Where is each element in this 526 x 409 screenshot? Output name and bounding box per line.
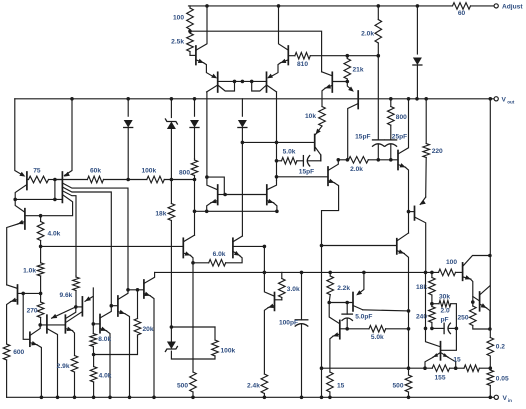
- transistor Q24 (NPN): [328, 160, 338, 186]
- transistor Q32 (NPN): [322, 233, 409, 254]
- wire Q17 emitter to 2.9k: [72, 331, 74, 356]
- wire 30k column to Q28 collector: [441, 328, 456, 350]
- wire Z1 top: [170, 99, 172, 118]
- wire 4.0k lower to rail: [93, 382, 95, 397]
- junction Vout rail / D2: [126, 97, 130, 101]
- resistor 21k value label: [353, 67, 364, 74]
- resistor 4.0k upper value label: [48, 231, 61, 238]
- resistor 2.5k: [187, 33, 194, 55]
- junction 9.6k / Q16 / Q17 / Q18 node: [74, 305, 78, 309]
- terminal Vin label: [503, 395, 513, 403]
- resistor 250: [470, 302, 477, 325]
- wire emitter bus y211: [195, 210, 277, 212]
- wire 60k to 100k: [104, 179, 147, 181]
- resistor 800 (upper): [388, 99, 395, 125]
- svg-text:100k: 100k: [221, 348, 236, 355]
- wire 20k top: [137, 290, 139, 319]
- transistor Q28 (NPN dual emitter): [425, 328, 456, 368]
- svg-text:5.0k: 5.0k: [371, 334, 384, 341]
- resistor 600: [3, 344, 10, 360]
- transistor Q10 (NPN): [398, 99, 409, 170]
- resistor 240 value label: [416, 313, 427, 320]
- transistor Q20 (NPN): [7, 285, 41, 304]
- wire 5.0k lower left lead: [347, 328, 369, 330]
- junction bottom rail / Q19 emitter: [108, 396, 112, 400]
- wire 21k-top to 2.0k-bottom: [347, 55, 378, 57]
- svg-text:pF: pF: [441, 317, 449, 324]
- junction 2.2k bottom / Q26 collector: [327, 301, 331, 305]
- wire Q4 emitter to Q3: [270, 63, 280, 77]
- wire Q3 collector column: [276, 92, 278, 181]
- junction bottom rail / 500 right: [407, 396, 411, 400]
- junction top rail / Q4 collector: [277, 4, 281, 8]
- resistor 2.9k: [71, 356, 78, 373]
- resistor 1.0k value label: [23, 268, 36, 275]
- junction bus2 / 18k right: [430, 271, 434, 275]
- wire 30k right bend: [451, 304, 457, 329]
- wire 250 to 0.2 node: [473, 326, 490, 330]
- wire D3 top: [194, 99, 196, 116]
- wire Q26 emitter to 15: [330, 336, 333, 372]
- junction Q14 base node: [110, 304, 114, 308]
- resistor 500 right value label: [392, 383, 403, 390]
- junction 155 left / Q28 emitter1: [423, 366, 427, 370]
- wire Q21 base drop: [23, 293, 30, 339]
- capacitor 15pF: [373, 56, 385, 158]
- transistor Q21 (NPN): [30, 325, 40, 346]
- wire 0.05 to rail: [489, 386, 491, 398]
- svg-text:100: 100: [173, 15, 184, 22]
- resistor 2.0k upper value label: [361, 31, 374, 38]
- svg-text:60k: 60k: [90, 168, 101, 175]
- svg-text:3.0k: 3.0k: [287, 286, 300, 293]
- junction top rail / D1: [416, 4, 420, 8]
- transistor Q27 (PNP): [353, 290, 363, 311]
- junction Q9 collector / 2.0k line: [346, 158, 350, 162]
- wire 6.0k to Q23 emitter: [226, 256, 242, 263]
- resistor 60 (to Adjust pin): [453, 3, 471, 10]
- svg-text:V: V: [503, 395, 508, 402]
- wire Q10 emitter down: [405, 167, 408, 233]
- junction Vout rail / right column: [489, 97, 493, 101]
- transistor Q19 (NPN): [93, 306, 111, 333]
- transistor Q26 (NPN): [329, 303, 347, 339]
- wire 18k to zener node: [170, 221, 172, 328]
- wire Q29 emitter to Q30 base: [471, 279, 473, 302]
- transistor Q16 (PNP): [47, 314, 58, 397]
- svg-text:60: 60: [458, 10, 466, 17]
- resistor 15 (right): [464, 365, 479, 372]
- wire 2.9k to rail: [74, 372, 76, 397]
- resistor 5.0k lower value label: [371, 334, 384, 341]
- wire bottom rail (Vin): [7, 396, 494, 398]
- terminal Vout label: [502, 96, 515, 104]
- wire D3 bottom: [194, 128, 196, 159]
- resistor 5.0k (with 15pF): [282, 158, 297, 165]
- junction Vout rail / D3: [193, 97, 197, 101]
- resistor 21k: [344, 56, 351, 82]
- wire Q23-base node down: [263, 246, 265, 272]
- svg-text:500: 500: [392, 383, 403, 390]
- junction bottom rail / Q24 emitter: [320, 396, 324, 400]
- transistor Q1 (NPN): [190, 6, 207, 65]
- junction 4.0k / comparator bus: [39, 245, 43, 249]
- capacitor 25pF: [385, 125, 397, 158]
- junction bottom rail / 2.9k: [73, 396, 77, 400]
- junction emitter bus Q12: [205, 210, 209, 214]
- resistor 100 value label: [173, 15, 184, 22]
- resistor 800 (lower): [191, 159, 198, 180]
- junction bottom rail / Q21 emitter: [40, 396, 44, 400]
- resistor 0.05 value label: [496, 376, 509, 383]
- wire 6.0k left lead: [193, 262, 209, 264]
- svg-text:2.4k: 2.4k: [247, 383, 260, 390]
- transistor Q5 (PNP, quad collector): [43, 172, 128, 306]
- wire Q15 emitter to rail: [150, 296, 154, 398]
- junction Q2 base rail A: [233, 80, 237, 84]
- wire 240 bottom: [431, 323, 433, 329]
- svg-text:5.0pF: 5.0pF: [355, 314, 372, 321]
- junction bus2 / x426 (220): [424, 271, 428, 275]
- resistor 15 right value label: [453, 357, 461, 364]
- svg-text:15pF: 15pF: [299, 169, 314, 176]
- capacitor 15pF series value label: [299, 169, 314, 176]
- svg-text:21k: 21k: [353, 67, 364, 74]
- transistor Q8 (NPN): [322, 72, 348, 92]
- resistor 3.0k value label: [287, 286, 300, 293]
- wire Vout rail: [15, 98, 494, 100]
- wire 600 to ground rail: [6, 360, 8, 397]
- transistor Q29 (NPN): [463, 256, 490, 281]
- transistor Q13 (NPN): [267, 181, 277, 205]
- junction Q32 base / Q24 emitter column: [320, 244, 324, 248]
- svg-text:0.05: 0.05: [496, 376, 509, 383]
- wire 500 left to rail: [192, 392, 194, 397]
- svg-text:6.0k: 6.0k: [213, 251, 226, 258]
- resistor 100k (upper): [147, 176, 165, 183]
- junction bottom rail / Q15 emitter: [152, 396, 156, 400]
- wire D1 cathode to Vout rail: [416, 65, 418, 99]
- junction Q24-emitter column / 155 line: [320, 366, 324, 370]
- junction 270 bottom / Q21 collector: [38, 323, 42, 327]
- wire Q27 emitter drop: [358, 272, 364, 294]
- wire 75 left lead: [27, 179, 29, 181]
- wire D2 top: [127, 99, 129, 116]
- wire Q25 emitter to 2.4k: [264, 308, 268, 375]
- wire 6.0k node to 500: [192, 263, 194, 372]
- resistor 9.6k: [73, 276, 80, 291]
- svg-text:15: 15: [453, 357, 461, 364]
- junction 20k / Q15 base: [136, 288, 140, 292]
- junction Q7 base / 4.0k top: [39, 214, 43, 218]
- resistor 30k: [439, 300, 451, 307]
- wire bus2 (Q15 collector rail): [155, 271, 439, 273]
- junction Q6/Q7 collector node: [13, 198, 17, 202]
- wire D2 bottom: [127, 128, 129, 180]
- junction top rail / Q1 collector: [205, 4, 209, 8]
- junction bottom rail / 2.4k: [263, 396, 267, 400]
- junction 6.0k left / Q22 emitter: [191, 261, 195, 265]
- resistor 100 (output): [439, 269, 456, 276]
- transistor Q9 (PNP): [348, 86, 359, 158]
- svg-text:5.0k: 5.0k: [283, 149, 296, 156]
- wire 75-node to collector-node: [54, 180, 56, 200]
- diode D2: [124, 120, 133, 128]
- resistor 18k (right): [429, 272, 436, 295]
- junction Vout rail / R220: [424, 97, 428, 101]
- wire Q24 base line: [277, 176, 329, 178]
- resistor 810 value label: [297, 61, 308, 68]
- resistor 220: [423, 99, 430, 158]
- junction 0.2 / 15 / 0.05 node: [489, 366, 493, 370]
- junction 100k / Z1 line: [170, 178, 174, 182]
- wire 2.0k lower leads: [347, 159, 348, 161]
- capacitor 15pF (series): [297, 156, 321, 166]
- wire 0.2 to 15-node: [489, 357, 491, 368]
- wire 15 left to rail: [329, 392, 331, 397]
- wire Q15 base line: [128, 289, 144, 291]
- svg-text:2.9k: 2.9k: [57, 363, 70, 370]
- wire top rail (Adjust): [189, 5, 453, 7]
- wire 220 to Q31: [425, 158, 428, 198]
- svg-text:250: 250: [457, 315, 468, 322]
- resistor 500 (right): [405, 375, 412, 392]
- wire 3.0k to Q25 base: [281, 298, 283, 300]
- svg-text:20k: 20k: [143, 326, 154, 333]
- wire Z2 top: [170, 327, 172, 342]
- junction 21k bottom / Q9 base: [346, 80, 350, 84]
- wire Q6 collector node line: [15, 198, 62, 200]
- junction 2.0k line left node: [337, 158, 341, 162]
- junction 75-node drop: [53, 198, 57, 202]
- wire 21k node to Q9 emitter: [347, 82, 352, 91]
- wire 75 right lead: [49, 179, 55, 181]
- resistor 0.2 value label: [496, 343, 505, 350]
- svg-text:800: 800: [179, 170, 190, 177]
- svg-text:600: 600: [13, 349, 24, 356]
- transistor Q15 (NPN): [144, 272, 155, 298]
- transistor Q14 (NPN): [111, 290, 128, 316]
- resistor 18k (left): [168, 180, 175, 221]
- resistor 9.6k value label: [60, 292, 73, 299]
- wire 18k right bottom: [431, 295, 433, 304]
- wire Q21 emitter to rail: [37, 345, 42, 398]
- wire bus-left down to Q22 collector: [194, 211, 196, 235]
- junction 250 top / Q30 base: [471, 300, 475, 304]
- wire 2.4k to rail: [263, 394, 265, 398]
- svg-text:1.0k: 1.0k: [23, 268, 36, 275]
- wire 9.6k to node: [75, 291, 77, 307]
- junction bottom rail / 500 left: [191, 396, 195, 400]
- svg-text:2.0: 2.0: [441, 307, 450, 314]
- junction 5.0pF top: [345, 301, 349, 305]
- resistor 4.0k lower value label: [99, 373, 112, 380]
- transistor Q23 (NPN): [233, 236, 265, 258]
- junction Q23 base / 2.4k column: [263, 245, 267, 249]
- svg-text:25pF: 25pF: [392, 134, 407, 141]
- zener Z2: [165, 342, 177, 352]
- junction Q27 collector / Q10 emitter column: [407, 309, 411, 313]
- junction Q20 base / Q21 base drop: [21, 292, 25, 296]
- wire 15 to 0.2 node: [479, 367, 490, 369]
- junction x408 / 155 line: [407, 366, 411, 370]
- junction R100/R2.5k node: [188, 29, 192, 33]
- wire Q18 emitter column to Q19 base: [92, 297, 94, 324]
- svg-text:800: 800: [396, 114, 407, 121]
- junction 5.0pF bottom / 5.0k: [345, 327, 349, 331]
- resistor 500 left value label: [177, 383, 188, 390]
- wire Q32 emitter down: [404, 253, 409, 311]
- svg-text:18k: 18k: [155, 211, 166, 218]
- transistor Q30 (NPN): [473, 286, 490, 311]
- wire D3 node down to emitter bus: [194, 180, 196, 212]
- wire chain to Q11 collector: [320, 155, 322, 161]
- resistor 8.0k: [90, 324, 97, 347]
- resistor 100 output value label: [446, 259, 457, 266]
- resistor 155: [432, 365, 449, 372]
- svg-text:270: 270: [27, 308, 38, 315]
- wire Q20 emitter to 600: [7, 302, 11, 345]
- resistor 220 value label: [432, 148, 443, 155]
- junction 1.0k bottom / Q20 base: [39, 292, 43, 296]
- resistor 240: [429, 304, 436, 323]
- wire Vout rail to Q6 emitter: [15, 99, 23, 176]
- terminal Adjust label: [502, 4, 523, 11]
- wire 155 line left: [322, 367, 433, 369]
- resistor 8.0k value label: [98, 336, 111, 343]
- capacitor 5.0pF: [342, 303, 352, 329]
- transistor Q3 (PNP dual collector): [252, 72, 277, 92]
- resistor 20k value label: [143, 326, 154, 333]
- svg-text:2.0k: 2.0k: [361, 31, 374, 38]
- wire Q1 emitter to Q2: [204, 63, 214, 77]
- junct bus2 / Q27 emitter: [362, 271, 366, 275]
- resistor 15 left value label: [337, 383, 345, 390]
- junction 60k-100k / D2: [126, 178, 130, 182]
- junction Q31 base / Q10 emitter column: [407, 210, 411, 214]
- wire 100k bottom loop: [171, 351, 215, 359]
- svg-text:out: out: [507, 100, 515, 105]
- resistor 18k left value label: [155, 211, 166, 218]
- resistor 20k: [134, 319, 141, 338]
- junction 240 / cap line: [430, 327, 434, 331]
- resistor 5.0k upper value label: [283, 149, 296, 156]
- capacitor 100pF value label: [279, 320, 298, 327]
- junction 2.0k bottom node: [377, 54, 381, 58]
- capacitor 2.0pF: [432, 323, 457, 333]
- wire 5.0k lower right lead: [386, 328, 409, 330]
- svg-text:100: 100: [446, 259, 457, 266]
- resistor 270 value label: [27, 308, 38, 315]
- junction Q2/Q3 base rail center: [241, 80, 245, 84]
- svg-text:15: 15: [337, 383, 345, 390]
- resistor 60k: [87, 176, 103, 183]
- capacitor 25pF value label: [392, 134, 407, 141]
- wire 810 to 21k node: [310, 55, 347, 57]
- wire right column upper: [489, 99, 491, 329]
- junction bottom rail / 4.0k lower: [92, 396, 96, 400]
- resistor 2.5k value label: [171, 39, 184, 46]
- transistor Q18 (PNP): [67, 288, 94, 322]
- junction 25pF bottom / 2.0k line: [389, 158, 393, 162]
- junction Q12 collector dot: [205, 175, 209, 179]
- wire Q8 emitter down to 10k: [322, 88, 325, 106]
- junction 250 / Q30 emitter / 0.2: [488, 327, 492, 331]
- svg-text:4.0k: 4.0k: [48, 231, 61, 238]
- wire node-31 to Q9 collector column: [190, 31, 322, 72]
- svg-text:30k: 30k: [439, 293, 450, 300]
- svg-text:V: V: [502, 96, 507, 103]
- junction Vout rail / Z1: [170, 97, 174, 101]
- resistor 4.0k (lower): [90, 355, 97, 383]
- transistor Q12 (NPN, diode-connected): [207, 177, 225, 204]
- terminal Vout pin circle: [494, 97, 498, 101]
- resistor 2.9k value label: [57, 363, 70, 370]
- resistor 60 value label: [458, 10, 466, 17]
- resistor 800 upper value label: [396, 114, 407, 121]
- svg-text:2.5k: 2.5k: [171, 39, 184, 46]
- wire 2.0k line left end: [338, 159, 347, 161]
- junction Q14 collector / Q15 base: [126, 288, 130, 292]
- wire 10k to Q11 emitter: [316, 126, 323, 135]
- junction bottom rail / Q14 emitter: [128, 396, 132, 400]
- resistor 15 (left): [327, 372, 334, 392]
- junction bus2 / Q25 collector: [263, 271, 267, 275]
- resistor 800 lower value label: [179, 170, 190, 177]
- capacitor 100pF: [295, 272, 308, 397]
- transistor Q25 (NPN): [268, 293, 282, 311]
- wire 30k left lead: [432, 303, 439, 305]
- resistor 4.0k (upper): [37, 216, 44, 247]
- wire D4 bottom: [241, 128, 243, 143]
- resistor 3.0k: [279, 272, 286, 297]
- wire 100k to Z1 node: [164, 179, 194, 181]
- diode D4: [238, 120, 247, 128]
- resistor 810: [295, 52, 310, 59]
- transistor Q2 (PNP dual collector): [207, 72, 235, 92]
- svg-text:500: 500: [177, 383, 188, 390]
- wire 220 to Q31 emitter: [420, 197, 426, 204]
- junction 18k/30k/240 node: [430, 302, 434, 306]
- wire 155 to 15: [450, 367, 464, 369]
- junction Q3 base rail B: [250, 80, 254, 84]
- wire 2.2k to node: [329, 295, 330, 303]
- wire center column to Q23 collector: [241, 142, 243, 236]
- resistor 500 (left): [190, 372, 197, 392]
- svg-text:0.2: 0.2: [496, 343, 505, 350]
- diode D1: [413, 58, 422, 66]
- wire Q19 emitter to rail: [106, 331, 110, 398]
- wire 500 right to rail: [408, 392, 410, 397]
- resistor 2.2k: [327, 272, 334, 294]
- transistor Q4 (NPN): [279, 6, 289, 65]
- junction top rail / R 2.0k: [377, 4, 381, 8]
- resistor 2.0k lower value label: [350, 166, 363, 173]
- svg-text:15pF: 15pF: [355, 134, 370, 141]
- junction cap line right: [455, 327, 459, 331]
- wire D4 top: [241, 99, 243, 116]
- wire Q24 emitter path: [322, 183, 339, 398]
- junction x276 / 5.0k-15pF chain: [275, 159, 279, 163]
- junction Q12 base dot: [223, 193, 227, 197]
- junction cap line / Q28 base: [424, 327, 428, 331]
- transistor Q7 (NPN): [7, 199, 41, 285]
- wire Q30 emitter to 0.2 node: [486, 308, 490, 329]
- zener Z1: [165, 119, 177, 129]
- resistor 75 value label: [33, 168, 41, 175]
- wire Q12 diode bracket: [207, 177, 224, 194]
- svg-text:100k: 100k: [141, 168, 156, 175]
